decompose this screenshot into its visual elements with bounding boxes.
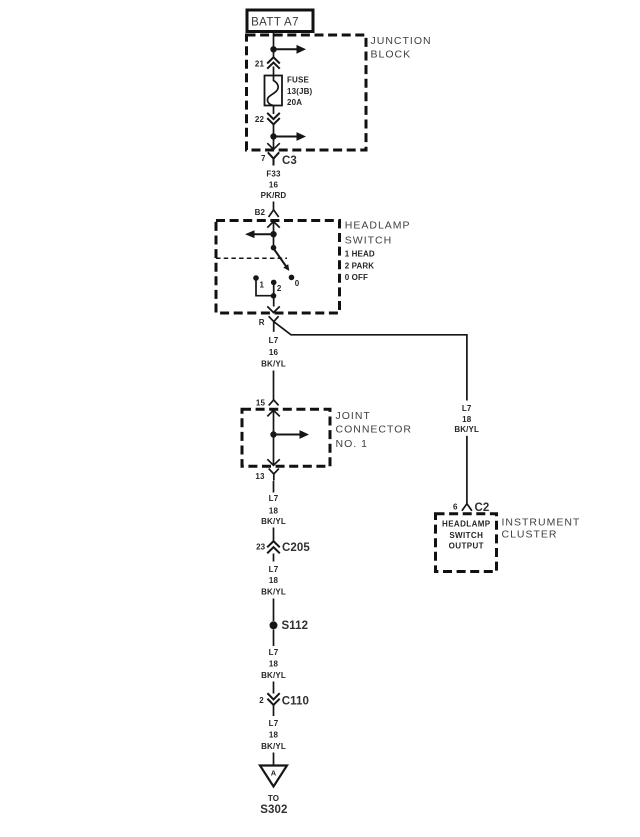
svg-text:L7: L7 bbox=[269, 336, 279, 345]
wire: C3 to headlamp switch pin B2 bbox=[273, 202, 275, 210]
svg-text:CONNECTOR: CONNECTOR bbox=[336, 424, 412, 436]
node: joint connector splice bbox=[270, 431, 276, 437]
headlamp switch name label bbox=[345, 220, 411, 247]
svg-text:13: 13 bbox=[255, 472, 265, 481]
wire: down to joint connector pin 15 bbox=[273, 371, 275, 400]
svg-text:BK/YL: BK/YL bbox=[454, 425, 479, 434]
off-page reference triangle A bbox=[260, 766, 287, 787]
svg-text:INSTRUMENT: INSTRUMENT bbox=[502, 517, 581, 529]
wire label L7 18 BK/YL (below 13) bbox=[261, 494, 286, 526]
battery feed box BATT A7 bbox=[247, 10, 313, 32]
wire label L7 18 BK/YL (below C205) bbox=[261, 565, 286, 597]
wire: down to off-page triangle bbox=[273, 753, 275, 766]
svg-text:18: 18 bbox=[269, 659, 279, 668]
wire: C110 down bbox=[273, 705, 275, 716]
internal dashed partition line bbox=[216, 257, 287, 259]
wire: S112 down bbox=[273, 630, 275, 647]
entry arrow below B2 inside switch bbox=[267, 222, 280, 235]
connector C205 pin 23 (double chevron) bbox=[256, 541, 310, 554]
wire: splice down to pin 21 bbox=[273, 49, 275, 57]
svg-text:6: 6 bbox=[453, 503, 458, 512]
wire: fuse to pin 22 bbox=[273, 106, 275, 115]
svg-text:PK/RD: PK/RD bbox=[261, 191, 287, 200]
wire: BATT A7 down into junction block bbox=[273, 32, 275, 50]
svg-text:2: 2 bbox=[259, 696, 264, 705]
splice S112 bbox=[270, 620, 309, 632]
svg-text:L7: L7 bbox=[462, 404, 472, 413]
svg-text:1: 1 bbox=[260, 281, 265, 290]
connector C3 pin 7 (Y symbol) bbox=[261, 152, 297, 167]
joint connector name label bbox=[336, 410, 412, 450]
feed arrow to other circuits (top) bbox=[274, 45, 307, 54]
svg-text:13(JB): 13(JB) bbox=[287, 87, 313, 96]
svg-text:18: 18 bbox=[269, 731, 279, 740]
svg-text:S112: S112 bbox=[282, 620, 309, 632]
svg-text:L7: L7 bbox=[269, 719, 279, 728]
wire: down to splice S112 bbox=[273, 599, 275, 622]
svg-text:F33: F33 bbox=[266, 169, 281, 178]
svg-text:L7: L7 bbox=[269, 648, 279, 657]
switch blade (wiper arm) bbox=[274, 250, 289, 271]
svg-text:BK/YL: BK/YL bbox=[261, 360, 286, 369]
svg-text:SWITCH: SWITCH bbox=[449, 531, 483, 540]
connector pin 15 (half connector) bbox=[256, 399, 279, 408]
wire: pin 22 down to lower splice bbox=[273, 124, 275, 137]
svg-text:S302: S302 bbox=[260, 804, 287, 816]
svg-text:BK/YL: BK/YL bbox=[261, 742, 286, 751]
joint connector no.1 outline bbox=[242, 409, 330, 466]
svg-text:16: 16 bbox=[269, 348, 279, 357]
svg-text:BK/YL: BK/YL bbox=[261, 671, 286, 680]
wire: C205 down bbox=[273, 554, 275, 562]
connector pin R (Y symbol) bbox=[259, 316, 279, 332]
svg-text:7: 7 bbox=[261, 154, 266, 163]
svg-text:18: 18 bbox=[269, 576, 279, 585]
svg-text:BK/YL: BK/YL bbox=[261, 517, 286, 526]
svg-text:23: 23 bbox=[256, 542, 266, 551]
svg-text:TO: TO bbox=[268, 794, 279, 803]
instrument cluster function label bbox=[442, 519, 491, 550]
svg-text:2: 2 bbox=[277, 284, 282, 293]
connector pin B2 (half connector) bbox=[255, 208, 279, 217]
wire: right branch down to instrument cluster bbox=[466, 436, 468, 504]
svg-text:18: 18 bbox=[269, 506, 279, 515]
exit arrow at switch bottom edge bbox=[267, 306, 280, 312]
svg-text:SWITCH: SWITCH bbox=[345, 234, 392, 246]
svg-text:OUTPUT: OUTPUT bbox=[449, 542, 484, 551]
fuse value label bbox=[287, 76, 313, 108]
wire label F33 16 PK/RD bbox=[261, 169, 287, 200]
switch pivot contact bbox=[271, 245, 277, 251]
wire with exit arrow at junction block bottom edge bbox=[267, 137, 280, 150]
connector pin 22 (double chevron) bbox=[255, 113, 280, 124]
connector pin 13 (Y symbol) bbox=[255, 469, 279, 481]
svg-text:15: 15 bbox=[256, 399, 266, 408]
wire with exit arrow at joint connector bottom bbox=[267, 435, 280, 466]
internal feed arrow pointing left bbox=[245, 230, 274, 238]
svg-text:HEADLAMP: HEADLAMP bbox=[442, 519, 491, 528]
svg-text:CLUSTER: CLUSTER bbox=[502, 529, 558, 541]
svg-text:0: 0 bbox=[295, 279, 300, 288]
destination label TO S302 bbox=[260, 794, 287, 816]
fuse 13(JB) 20A bbox=[265, 76, 283, 106]
svg-text:HEADLAMP: HEADLAMP bbox=[345, 220, 411, 232]
wire label L7 18 BK/YL (below C110) bbox=[261, 719, 286, 751]
wire label L7 18 BK/YL (right branch) bbox=[454, 404, 479, 434]
svg-text:JUNCTION: JUNCTION bbox=[371, 35, 432, 47]
svg-text:C110: C110 bbox=[282, 695, 309, 707]
connector pin 21 (double chevron) bbox=[255, 57, 280, 68]
svg-text:L7: L7 bbox=[269, 565, 279, 574]
svg-text:L7: L7 bbox=[269, 494, 279, 503]
svg-text:18: 18 bbox=[462, 415, 472, 424]
connector C110 pin 2 (double chevron) bbox=[259, 693, 309, 707]
wire: pin 21 to fuse bbox=[273, 67, 275, 76]
junction block name label bbox=[371, 35, 432, 60]
svg-text:16: 16 bbox=[269, 181, 279, 190]
contact 1 (HEAD position) bbox=[253, 275, 264, 289]
svg-text:A: A bbox=[271, 769, 277, 778]
contact 2 (PARK position) bbox=[271, 280, 282, 293]
wire: down to C110 bbox=[273, 682, 275, 694]
svg-text:JOINT: JOINT bbox=[336, 410, 371, 422]
wire: down to C205 bbox=[273, 528, 275, 542]
connector C2 pin 6 (half connector) bbox=[453, 502, 489, 514]
svg-text:FUSE: FUSE bbox=[287, 76, 309, 85]
junction block outline bbox=[247, 35, 367, 150]
wire: branch from R to instrument cluster (diagonal + horizontal + vertical) bbox=[274, 322, 467, 401]
wire: contact 1 strap to output bbox=[256, 278, 274, 296]
wire label L7 16 BK/YL (below R) bbox=[261, 336, 286, 368]
svg-text:BATT A7: BATT A7 bbox=[251, 16, 299, 28]
svg-text:22: 22 bbox=[255, 115, 265, 124]
wire: pin 13 down bbox=[273, 481, 275, 493]
svg-text:1 HEAD: 1 HEAD bbox=[345, 250, 375, 259]
svg-text:20A: 20A bbox=[287, 98, 302, 107]
svg-text:2 PARK: 2 PARK bbox=[345, 262, 374, 271]
svg-text:BLOCK: BLOCK bbox=[371, 48, 412, 60]
svg-text:NO. 1: NO. 1 bbox=[336, 438, 368, 450]
svg-text:C3: C3 bbox=[282, 155, 297, 167]
svg-text:0 OFF: 0 OFF bbox=[345, 273, 368, 282]
entry arrow inside joint connector bbox=[267, 410, 280, 434]
wire: contact 2 down to output bbox=[273, 282, 275, 306]
headlamp switch outline bbox=[216, 221, 340, 314]
feed arrow to other circuits (bottom) bbox=[274, 132, 307, 141]
svg-text:C205: C205 bbox=[282, 542, 310, 554]
instrument cluster name label bbox=[502, 517, 581, 541]
contact 0 (OFF position) bbox=[289, 275, 300, 288]
node: switch common junction bbox=[270, 231, 276, 237]
svg-text:B2: B2 bbox=[255, 208, 266, 217]
svg-text:21: 21 bbox=[255, 59, 265, 68]
switch position legend 1 HEAD / 2 PARK / 0 OFF bbox=[345, 250, 375, 283]
node: output junction bbox=[271, 293, 277, 299]
wire: junction to switch pivot bbox=[273, 234, 275, 248]
feed arrow to other circuits (joint connector) bbox=[274, 430, 310, 439]
wire label L7 18 BK/YL (below S112) bbox=[261, 648, 286, 680]
node: splice at top of junction block bbox=[270, 46, 276, 52]
node: splice at bottom of junction block bbox=[270, 133, 276, 139]
svg-text:R: R bbox=[259, 318, 265, 327]
svg-text:BK/YL: BK/YL bbox=[261, 588, 286, 597]
instrument cluster outline bbox=[436, 514, 497, 572]
